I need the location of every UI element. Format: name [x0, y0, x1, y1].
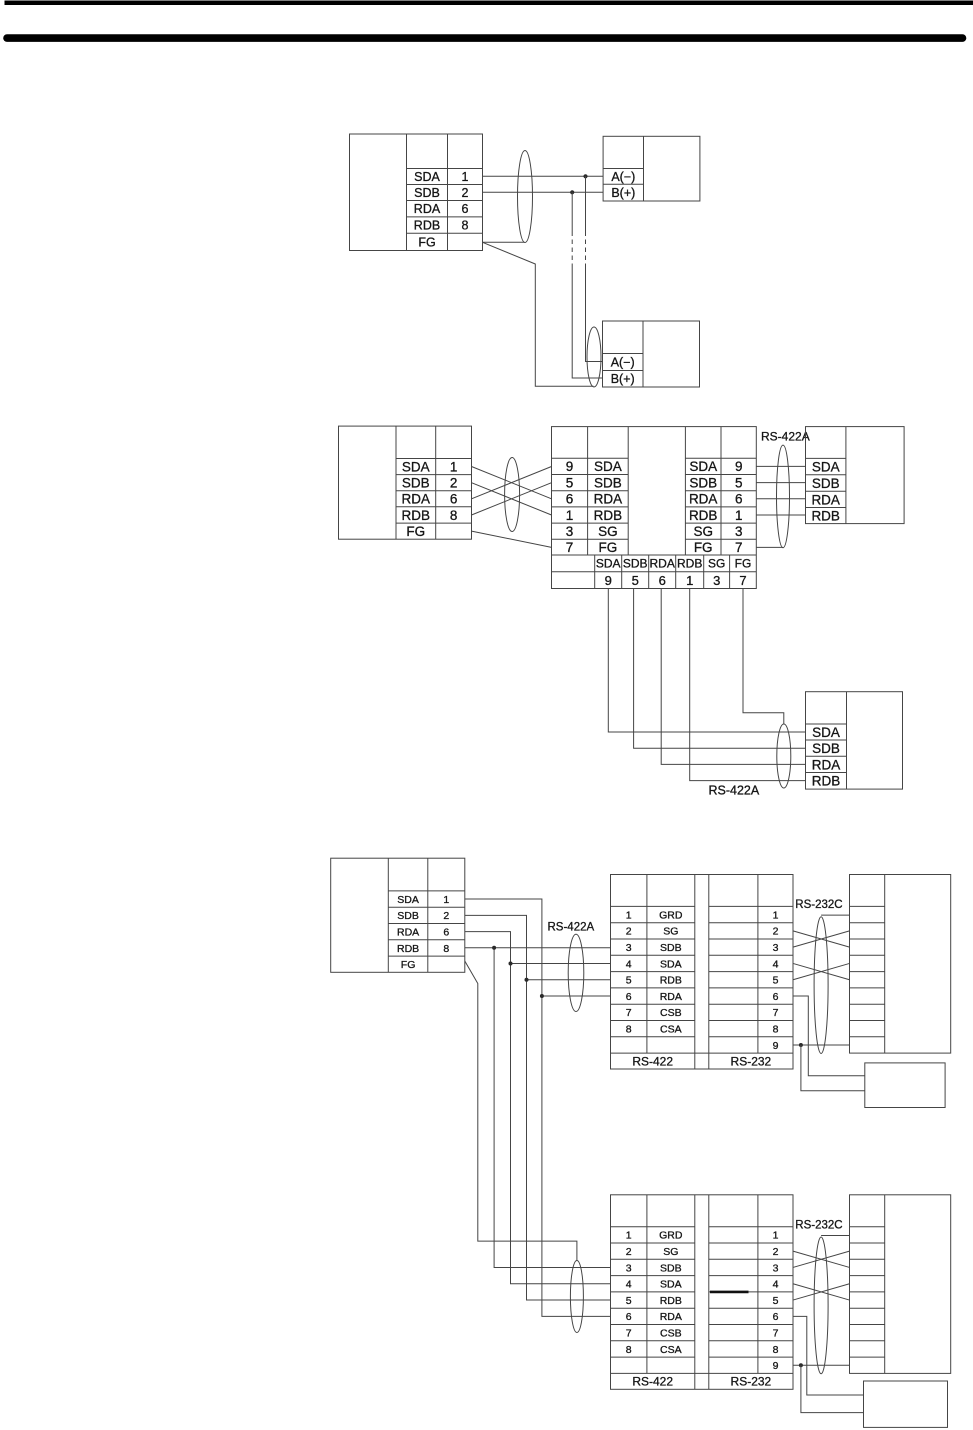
- svg-text:7: 7: [739, 573, 746, 588]
- svg-text:SG: SG: [598, 524, 618, 539]
- svg-text:SDB: SDB: [623, 557, 648, 571]
- svg-text:SDB: SDB: [660, 942, 682, 954]
- svg-text:2: 2: [450, 475, 458, 490]
- svg-text:RDA: RDA: [660, 991, 682, 1003]
- svg-text:6: 6: [443, 926, 449, 938]
- svg-text:8: 8: [773, 1344, 779, 1356]
- svg-text:7: 7: [773, 1327, 779, 1339]
- svg-text:5: 5: [632, 573, 639, 588]
- svg-text:RDA: RDA: [689, 492, 718, 507]
- svg-text:8: 8: [773, 1023, 779, 1035]
- svg-text:FG: FG: [401, 959, 416, 971]
- svg-text:2: 2: [773, 1246, 779, 1258]
- svg-text:5: 5: [773, 1295, 779, 1307]
- svg-text:6: 6: [450, 492, 458, 507]
- svg-text:SDB: SDB: [689, 475, 717, 490]
- svg-text:1: 1: [686, 573, 693, 588]
- svg-text:8: 8: [450, 508, 458, 523]
- svg-text:5: 5: [626, 975, 632, 987]
- svg-text:6: 6: [773, 1311, 779, 1323]
- svg-text:9: 9: [605, 573, 612, 588]
- svg-text:6: 6: [773, 991, 779, 1003]
- svg-text:4: 4: [626, 958, 632, 970]
- svg-text:SDB: SDB: [594, 475, 622, 490]
- svg-text:1: 1: [735, 508, 743, 523]
- svg-text:SDA: SDA: [397, 894, 419, 906]
- svg-text:3: 3: [626, 942, 632, 954]
- svg-text:GRD: GRD: [659, 1230, 683, 1242]
- svg-text:CSA: CSA: [660, 1023, 682, 1035]
- svg-text:3: 3: [713, 573, 720, 588]
- svg-text:FG: FG: [735, 557, 752, 571]
- svg-text:6: 6: [735, 492, 743, 507]
- svg-text:1: 1: [773, 1230, 779, 1242]
- svg-text:6: 6: [566, 492, 574, 507]
- svg-text:RDA: RDA: [397, 926, 419, 938]
- svg-text:RDB: RDB: [660, 975, 682, 987]
- svg-text:7: 7: [773, 1007, 779, 1019]
- svg-text:RDA: RDA: [414, 202, 441, 216]
- svg-text:1: 1: [626, 909, 632, 921]
- svg-text:2: 2: [443, 910, 449, 922]
- svg-text:RDA: RDA: [402, 492, 431, 507]
- svg-text:1: 1: [443, 894, 449, 906]
- svg-text:6: 6: [462, 202, 469, 216]
- svg-text:CSA: CSA: [660, 1344, 682, 1356]
- svg-text:SDA: SDA: [414, 170, 440, 184]
- svg-text:8: 8: [443, 943, 449, 955]
- svg-text:RDB: RDB: [414, 219, 440, 233]
- svg-text:5: 5: [566, 475, 574, 490]
- svg-text:RS-422A: RS-422A: [709, 783, 760, 797]
- svg-text:RDB: RDB: [660, 1295, 682, 1307]
- svg-text:RS-422A: RS-422A: [548, 922, 595, 934]
- svg-text:GRD: GRD: [659, 909, 683, 921]
- svg-text:SG: SG: [708, 557, 725, 571]
- svg-text:7: 7: [735, 540, 743, 555]
- svg-text:RDB: RDB: [689, 508, 718, 523]
- svg-text:RS-232C: RS-232C: [795, 899, 842, 911]
- svg-text:RS-422: RS-422: [632, 1375, 673, 1389]
- svg-text:RS-232: RS-232: [731, 1054, 772, 1068]
- svg-text:SDA: SDA: [594, 459, 622, 474]
- svg-text:4: 4: [773, 1279, 779, 1291]
- svg-text:RDA: RDA: [594, 492, 623, 507]
- svg-text:9: 9: [566, 459, 574, 474]
- svg-text:RDB: RDB: [677, 557, 702, 571]
- svg-text:4: 4: [773, 958, 779, 970]
- svg-text:SDA: SDA: [812, 460, 840, 475]
- svg-text:CSB: CSB: [660, 1007, 682, 1019]
- svg-text:1: 1: [462, 170, 469, 184]
- svg-text:9: 9: [735, 459, 743, 474]
- svg-text:RDA: RDA: [650, 557, 675, 571]
- svg-text:3: 3: [773, 942, 779, 954]
- svg-text:RDB: RDB: [402, 508, 431, 523]
- svg-text:7: 7: [566, 540, 574, 555]
- svg-text:1: 1: [566, 508, 574, 523]
- svg-text:RDB: RDB: [397, 943, 419, 955]
- svg-text:SG: SG: [663, 1246, 678, 1258]
- svg-text:RS-232C: RS-232C: [795, 1219, 842, 1231]
- svg-text:6: 6: [626, 1311, 632, 1323]
- svg-text:1: 1: [773, 909, 779, 921]
- svg-text:7: 7: [626, 1327, 632, 1339]
- svg-text:SDA: SDA: [660, 1279, 682, 1291]
- svg-text:SDA: SDA: [660, 958, 682, 970]
- svg-text:7: 7: [626, 1007, 632, 1019]
- svg-text:SDB: SDB: [812, 741, 840, 756]
- svg-text:2: 2: [773, 926, 779, 938]
- svg-text:B(+): B(+): [611, 372, 635, 386]
- svg-text:RDA: RDA: [660, 1311, 682, 1323]
- svg-text:SDB: SDB: [812, 476, 840, 491]
- svg-text:5: 5: [735, 475, 743, 490]
- svg-text:1: 1: [450, 459, 458, 474]
- svg-text:3: 3: [735, 524, 743, 539]
- svg-text:RS-422A: RS-422A: [761, 430, 810, 444]
- svg-text:SDB: SDB: [402, 475, 430, 490]
- svg-text:A(−): A(−): [611, 170, 635, 184]
- svg-text:RS-232: RS-232: [731, 1375, 772, 1389]
- svg-text:SDB: SDB: [397, 910, 419, 922]
- svg-text:SDA: SDA: [689, 459, 717, 474]
- svg-text:8: 8: [462, 219, 469, 233]
- svg-text:SG: SG: [693, 524, 713, 539]
- svg-text:RS-422: RS-422: [632, 1054, 673, 1068]
- svg-text:RDB: RDB: [812, 774, 841, 789]
- svg-text:2: 2: [626, 1246, 632, 1258]
- svg-text:4: 4: [626, 1279, 632, 1291]
- svg-text:FG: FG: [599, 540, 618, 555]
- svg-text:B(+): B(+): [611, 186, 635, 200]
- svg-text:SG: SG: [663, 926, 678, 938]
- svg-text:FG: FG: [406, 524, 425, 539]
- svg-text:3: 3: [773, 1262, 779, 1274]
- svg-text:FG: FG: [694, 540, 713, 555]
- svg-text:RDB: RDB: [811, 509, 840, 524]
- svg-text:SDB: SDB: [414, 186, 440, 200]
- svg-text:2: 2: [462, 186, 469, 200]
- svg-text:RDA: RDA: [812, 757, 841, 772]
- svg-text:1: 1: [626, 1230, 632, 1242]
- svg-text:3: 3: [566, 524, 574, 539]
- svg-text:6: 6: [626, 991, 632, 1003]
- svg-text:RDB: RDB: [594, 508, 623, 523]
- svg-text:5: 5: [773, 975, 779, 987]
- svg-text:9: 9: [773, 1360, 779, 1372]
- svg-text:SDA: SDA: [812, 725, 840, 740]
- svg-text:6: 6: [659, 573, 666, 588]
- svg-text:8: 8: [626, 1344, 632, 1356]
- svg-text:8: 8: [626, 1023, 632, 1035]
- svg-text:FG: FG: [418, 236, 435, 250]
- svg-text:SDA: SDA: [596, 557, 621, 571]
- svg-text:5: 5: [626, 1295, 632, 1307]
- svg-text:2: 2: [626, 926, 632, 938]
- svg-text:A(−): A(−): [611, 356, 635, 370]
- svg-text:SDB: SDB: [660, 1262, 682, 1274]
- svg-text:CSB: CSB: [660, 1327, 682, 1339]
- svg-text:9: 9: [773, 1040, 779, 1052]
- svg-text:RDA: RDA: [811, 492, 840, 507]
- svg-text:SDA: SDA: [402, 459, 430, 474]
- svg-text:3: 3: [626, 1262, 632, 1274]
